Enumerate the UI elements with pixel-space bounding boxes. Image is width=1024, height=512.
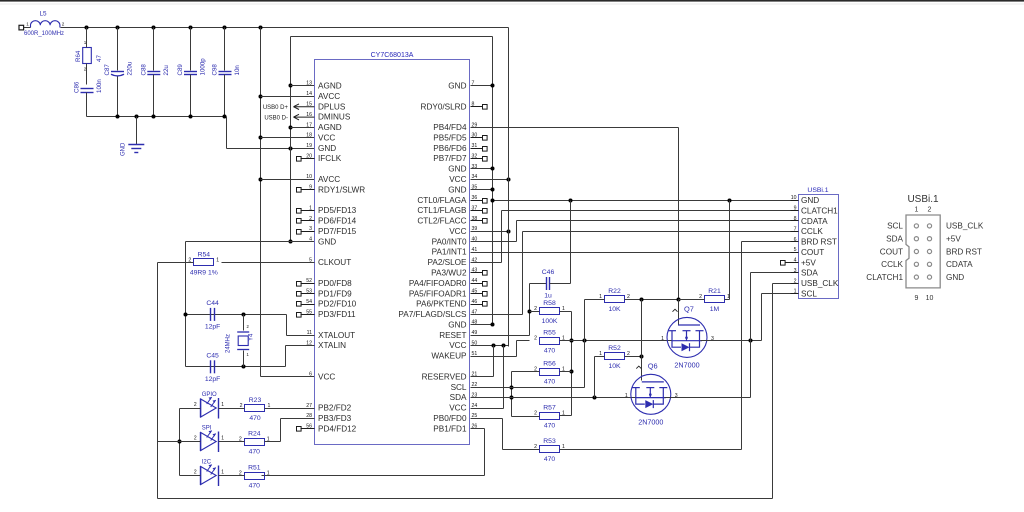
svg-text:CDATA: CDATA [801,217,828,226]
resistor R23 (470) [240,397,271,422]
svg-text:C46: C46 [542,269,555,276]
svg-text:USBi.1: USBi.1 [907,194,939,205]
svg-text:1u: 1u [544,293,552,300]
svg-text:4: 4 [309,237,312,243]
junction GND/C46 tap [569,199,573,203]
svg-text:CTL1/FLAGB: CTL1/FLAGB [417,206,467,215]
wire C44 row wire [186,314,287,316]
svg-text:10K: 10K [608,363,621,370]
wire R54/USB_CLK left riser [157,263,159,499]
junction R55 right tap [570,339,574,343]
wire rail to C87 [117,28,119,71]
wire C89 to gnd rail [190,75,192,117]
wire stub PD2 [301,304,315,306]
svg-text:3: 3 [711,336,714,342]
svg-text:BRD RST: BRD RST [946,247,982,256]
wire BRD RST riser [741,242,743,450]
wire VCC vertical left [260,28,262,377]
svg-text:PD4/FD12: PD4/FD12 [318,424,357,433]
port PB5 [483,136,488,141]
svg-text:PB1/FD1: PB1/FD1 [433,424,467,433]
junction AVCC14 tap [259,95,263,99]
wire GND7 wire [471,85,493,87]
junction gnd/C44 tap [184,313,188,317]
wire SCL/R22 riser [584,300,586,388]
junction GND corner [491,199,495,203]
capacitor C44 (12pF) [205,300,221,331]
junction GND33 tap [491,167,495,171]
wire R56 right lead [560,371,572,373]
wire to R21 left [679,299,705,301]
svg-text:USB_CLK: USB_CLK [946,222,984,231]
svg-text:PA6/PKTEND: PA6/PKTEND [416,300,466,309]
wire stub RDY0 [471,106,483,108]
svg-text:220u: 220u [127,61,134,75]
svg-text:GND: GND [946,273,964,282]
svg-text:COUT: COUT [801,248,824,257]
svg-text:PB5/FD5: PB5/FD5 [433,134,467,143]
svg-text:8: 8 [794,216,797,222]
svg-text:AVCC: AVCC [318,92,340,101]
svg-text:PA5/FIFOADR1: PA5/FIFOADR1 [409,289,467,298]
svg-text:2N7000: 2N7000 [638,418,663,427]
svg-text:C89: C89 [177,64,184,76]
wire GND wire to USBi [493,200,799,202]
svg-text:PD1/FD9: PD1/FD9 [318,289,352,298]
svg-text:GND: GND [448,82,466,91]
junction VCC50/RESERVED tap [492,344,496,348]
wire stub PB7 [471,158,483,160]
junction AGND13 tap [289,84,293,88]
svg-text:PB0/FD0: PB0/FD0 [433,414,467,423]
svg-text:PA7/FLAGD/SLCS: PA7/FLAGD/SLCS [398,310,467,319]
svg-text:PA2/SLOE: PA2/SLOE [428,258,468,267]
svg-text:GND: GND [448,165,466,174]
wire SCL wire [471,387,585,389]
junction GND4 junction [289,240,293,244]
junction gnd rail x=136.3 [135,115,139,119]
junction SDA tap [510,396,514,400]
svg-text:PB3/FD3: PB3/FD3 [318,414,352,423]
wire GND4 wire to crystal gnd [186,241,315,243]
wire stub IFCLK [301,158,315,160]
wire R22 right to node [625,299,679,301]
wire PB4 wire right [471,127,679,129]
svg-text:R23: R23 [249,397,262,404]
capacitor C86 (100n) [74,79,104,93]
wire R58 left lead [530,311,540,313]
wire USBi stub BRD RST [791,241,799,243]
svg-text:AGND: AGND [318,123,342,132]
junction R56 right tap [570,370,574,374]
svg-text:2: 2 [534,411,537,417]
wire SCL riser [761,294,763,341]
svg-text:R55: R55 [543,330,556,337]
wire XTALOUT riser [286,315,288,336]
svg-text:9: 9 [914,295,918,302]
wire VCC to pin VCC6 [261,376,315,378]
IC U? CY7C68013A body [315,60,470,445]
wire stub PD7 [301,231,315,233]
resistor R56 (470) [534,361,565,386]
wire SCL wire to USBi [762,293,799,295]
svg-text:BRD RST: BRD RST [801,238,837,247]
svg-text:14: 14 [306,91,312,97]
wire stub PD5 [301,210,315,212]
svg-text:470: 470 [249,448,261,455]
wire USB_CLK wire to USBi [773,283,799,285]
wire R64 to C86 [86,64,88,85]
svg-text:L5: L5 [39,11,47,18]
wire I2C led to R51 [219,475,245,477]
junction Y4 top tap [242,313,246,317]
wire PA1/COUT wire to USBi [471,252,799,254]
wire PA7 wire [471,314,523,316]
LED SPI [194,426,224,453]
wire Q7 gate vertical [678,300,680,325]
svg-text:RDY1/SLWR: RDY1/SLWR [318,185,365,194]
wire USBi stub USB_CLK [791,283,799,285]
wire R21 to GND riser [729,201,731,300]
svg-text:CTL0/FLAGA: CTL0/FLAGA [417,196,467,205]
junction VCC50/VCC24 tap [502,344,506,348]
junction Y4 bottom tap [242,365,246,369]
ground symbol GND [121,142,145,156]
capacitor C88 (22u) [140,64,170,76]
svg-text:100K: 100K [542,318,558,325]
svg-text:GND: GND [801,196,819,205]
junction VCC34 tap [507,178,511,182]
wire PA7/CCLK riser [522,232,524,315]
wire stub PD1 [301,293,315,295]
wire CLATCH1 wire to USBi [502,210,799,212]
svg-text:PD3/FD11: PD3/FD11 [318,310,356,319]
connector USBi1 box [799,195,839,299]
wire Y4 bottom lead [243,351,245,367]
wire stub CTL0 [471,200,483,202]
wire XTALIN riser [285,346,287,367]
port PA5 [483,292,488,297]
svg-text:PA4/FIFOADR0: PA4/FIFOADR0 [409,279,467,288]
wire GND33 wire [471,168,493,170]
wire rail to C98 [224,28,226,71]
svg-text:CLATCH1: CLATCH1 [801,206,838,215]
wire R52 right lead [625,356,642,358]
transistor Q7 (2N7000) [661,305,714,370]
wire VCC24 wire [471,408,504,410]
crystal Y4 (24MHz) [226,315,255,367]
wire R24 to PB3 riser [280,419,282,442]
svg-text:PA1/INT1: PA1/INT1 [432,248,467,257]
wire R53 to BRD RST riser [560,449,742,451]
svg-text:R64: R64 [75,50,82,62]
port PD7 [297,230,302,235]
svg-text:GND: GND [318,237,336,246]
svg-text:1: 1 [221,435,224,441]
wire RESET riser [529,284,531,336]
port IFCLK [297,157,302,162]
svg-text:CTL2/FLACC: CTL2/FLACC [417,217,466,226]
wire LED bus vertical [179,409,181,476]
wire USB_CLK bottom wire [158,498,773,500]
resistor R57 (470) [534,405,565,430]
wire SDA wire to USBi [751,272,799,274]
wire CDATA wire to USBi [517,220,799,222]
svg-text:SCL: SCL [887,222,903,231]
svg-text:VCC: VCC [318,134,335,143]
wire VCC34 wire [471,179,509,181]
svg-text:19: 19 [306,143,312,149]
wire GND loop top [291,36,493,38]
wire stub CTL1 [471,210,483,212]
wire R24 right lead [265,441,281,443]
svg-text:USB0 D+: USB0 D+ [263,105,289,111]
wire cap bank ground rail [87,116,225,118]
capacitor C46 (1u) [542,269,555,300]
wire USBi stub CDATA [791,220,799,222]
svg-text:18: 18 [306,133,312,139]
wire C46 right lead [550,283,571,285]
inductor L5 (600R_100MHz) [24,11,65,38]
resistor R21 (1M) [699,288,730,313]
svg-text:IFCLK: IFCLK [318,154,342,163]
junction gnd rail x=117.5 [116,115,120,119]
wire R54 left lead [158,262,194,264]
svg-text:PD2/FD10: PD2/FD10 [318,300,357,309]
wire pad to L5 [24,27,31,29]
wire SDA wire [471,397,637,399]
port PA4 [483,282,488,287]
wire Y4 top lead [243,315,245,331]
wire RESET wire [471,335,530,337]
svg-text:49R9 1%: 49R9 1% [190,269,218,276]
wire AGND17 wire [291,127,315,129]
resistor R51 (470) [239,464,270,489]
wire gnd rail to GND symbol [136,117,138,145]
svg-text:PB7/FD7: PB7/FD7 [433,154,467,163]
svg-text:R57: R57 [543,405,556,412]
wire stub PB6 [471,148,483,150]
wire stub PD0 [301,283,315,285]
wire R56/R57 drop [511,372,513,417]
junction SDA riser crossing [749,339,753,343]
svg-text:10: 10 [306,174,312,180]
svg-text:13: 13 [306,81,312,87]
wire USBi stub SCL [791,293,799,295]
wire CCLK wire to USBi [523,231,799,233]
port RDY1/SLWR [297,188,302,193]
wire stub PB5 [471,137,483,139]
svg-text:USB0 D-: USB0 D- [264,115,288,121]
resistor R24 (470) [239,430,270,455]
svg-text:24MHz: 24MHz [226,334,232,353]
wire gnd rail drop [226,117,228,149]
svg-text:CDATA: CDATA [946,260,973,269]
IC left pin names and numbers [306,81,365,434]
svg-text:CLATCH1: CLATCH1 [866,273,903,282]
wire GND48 wire [471,324,493,326]
svg-text:USBi.1: USBi.1 [807,187,828,194]
transistor Q6 (2N7000) [625,362,678,427]
svg-text:C86: C86 [74,81,81,93]
svg-text:470: 470 [544,456,556,463]
wire PA0/CDATA riser [516,221,518,242]
wire PB0 drop [502,419,504,450]
wire C45 row wire [186,366,286,368]
wire bus to GPIO led [180,408,201,410]
junction top rail x=153.8 [152,26,156,30]
svg-text:47: 47 [96,55,103,62]
capacitor C87 (220u) [104,61,134,76]
junction top rail x=225 [223,26,227,30]
svg-text:COUT: COUT [880,247,903,256]
wire stub CTL2 [471,220,483,222]
junction top rail x=117.5 [116,26,120,30]
wire stub PA6 [471,304,483,306]
wire stub PA3 [471,272,483,274]
wire GPIO led to R23 [219,408,245,410]
wire PB3 wire [281,418,315,420]
junction gnd rail x=225 [223,115,227,119]
wire rail to C88 [153,28,155,71]
svg-text:PD6/FD14: PD6/FD14 [318,217,357,226]
wire R21 right lead [725,299,730,301]
svg-text:100n: 100n [96,79,103,93]
wire to R53 left [503,449,540,451]
wire to R55 left [517,340,530,342]
wire VCC vertical right [508,28,510,347]
wire AVCC10 wire [261,179,315,181]
wire USBi stub +5V [791,262,799,264]
svg-text:R52: R52 [608,345,621,352]
wire PB4 drop [678,128,680,300]
port PD2 [297,302,302,307]
wire C86 to gnd rail [86,93,88,117]
port CTL1 [483,209,488,214]
wire VCC18 wire [261,137,315,139]
svg-text:R58: R58 [543,300,556,307]
svg-text:R24: R24 [248,430,261,437]
svg-text:PD0/FD8: PD0/FD8 [318,279,352,288]
svg-text:10K: 10K [608,306,621,313]
resistor R52 (10K) [599,345,630,370]
svg-text:3: 3 [675,393,678,399]
svg-text:PB6/FD6: PB6/FD6 [433,144,467,153]
svg-text:12pF: 12pF [205,376,221,383]
junction GND48 tap [491,323,495,327]
wire C46 to GND riser [570,201,572,284]
port CTL2 [483,219,488,224]
svg-text:GND: GND [448,321,466,330]
wire +5V stub [786,262,799,264]
port PB6 [483,147,488,152]
wire PA0 wire [471,241,517,243]
wire USBi stub CLATCH1 [791,210,799,212]
svg-text:1: 1 [661,336,664,342]
wire stub PD6 [301,220,315,222]
svg-text:GND: GND [121,142,127,156]
wire bus to I2C led [180,475,201,477]
svg-text:R56: R56 [543,361,556,368]
wire CLKOUT wire [222,262,315,264]
wire GND vertical right [492,37,494,325]
svg-text:PA0/INT0: PA0/INT0 [432,237,467,246]
junction gnd rail x=153.8 [152,115,156,119]
svg-text:27: 27 [306,403,312,409]
svg-text:PB4/FD4: PB4/FD4 [433,123,467,132]
wire stub RDY1/SLWR [301,189,315,191]
svg-text:Q7: Q7 [684,305,694,314]
resistor R53 (470) [534,438,565,463]
junction R52 tap [593,396,597,400]
wire SPI led to R24 [219,441,245,443]
svg-text:1: 1 [26,22,29,27]
svg-text:1000p: 1000p [200,58,207,76]
wire R58 right lead [560,311,572,313]
port PD6 [297,219,302,224]
junction gate node Q7/PB4 [677,298,681,302]
wire R23 to PB2 [265,408,315,410]
wire PA2 wire [471,262,502,264]
wire XTALIN wire [286,345,315,347]
wire VCC to VCC24 drop [503,346,505,409]
IC right pin names and numbers [398,81,477,434]
junction RESET/R58 tap [528,310,532,314]
svg-text:SDA: SDA [450,393,467,402]
svg-text:+5V: +5V [946,235,961,244]
svg-text:SDA: SDA [886,235,903,244]
svg-text:GND: GND [448,185,466,194]
svg-text:470: 470 [544,423,556,430]
svg-text:CCLK: CCLK [881,260,903,269]
svg-text:PD5/FD13: PD5/FD13 [318,206,357,215]
svg-text:C88: C88 [140,64,147,76]
port PD1 [297,292,302,297]
port PD3 [297,313,302,318]
wire rail to R64 [86,28,88,48]
junction GND35 tap [491,188,495,192]
svg-text:CCLK: CCLK [801,227,823,236]
svg-text:22u: 22u [163,65,170,76]
svg-text:XTALOUT: XTALOUT [318,331,355,340]
svg-text:VCC: VCC [449,227,466,236]
LED I2C [194,460,224,487]
resistor R55 (470) [534,330,565,355]
junction AGND17 tap [289,126,293,130]
wire Q7 drain wire [701,340,762,342]
svg-text:470: 470 [544,379,556,386]
wire VCC to RESERVED drop [493,346,495,377]
wire bus to left riser [158,441,180,443]
junction R52/gate junction [640,355,644,359]
svg-text:1: 1 [625,393,628,399]
svg-text:PD7/FD15: PD7/FD15 [318,227,357,236]
svg-text:470: 470 [544,348,556,355]
capacitor C98 (10n) [212,64,242,76]
svg-text:2: 2 [928,207,932,214]
wire WAKEUP wire [471,356,517,358]
wire R57 right lead [560,415,572,417]
junction top rail x=87 [85,26,89,30]
capacitor C45 (12pF) [205,352,221,383]
wire stub PA4 [471,283,483,285]
resistor R58 (100K) [534,300,565,325]
junction gate node Q6 tap [640,298,644,302]
junction GND19 junction [289,147,293,151]
port PD5 [297,209,302,214]
wire GND35 wire [471,189,493,191]
svg-text:VCC: VCC [449,175,466,184]
